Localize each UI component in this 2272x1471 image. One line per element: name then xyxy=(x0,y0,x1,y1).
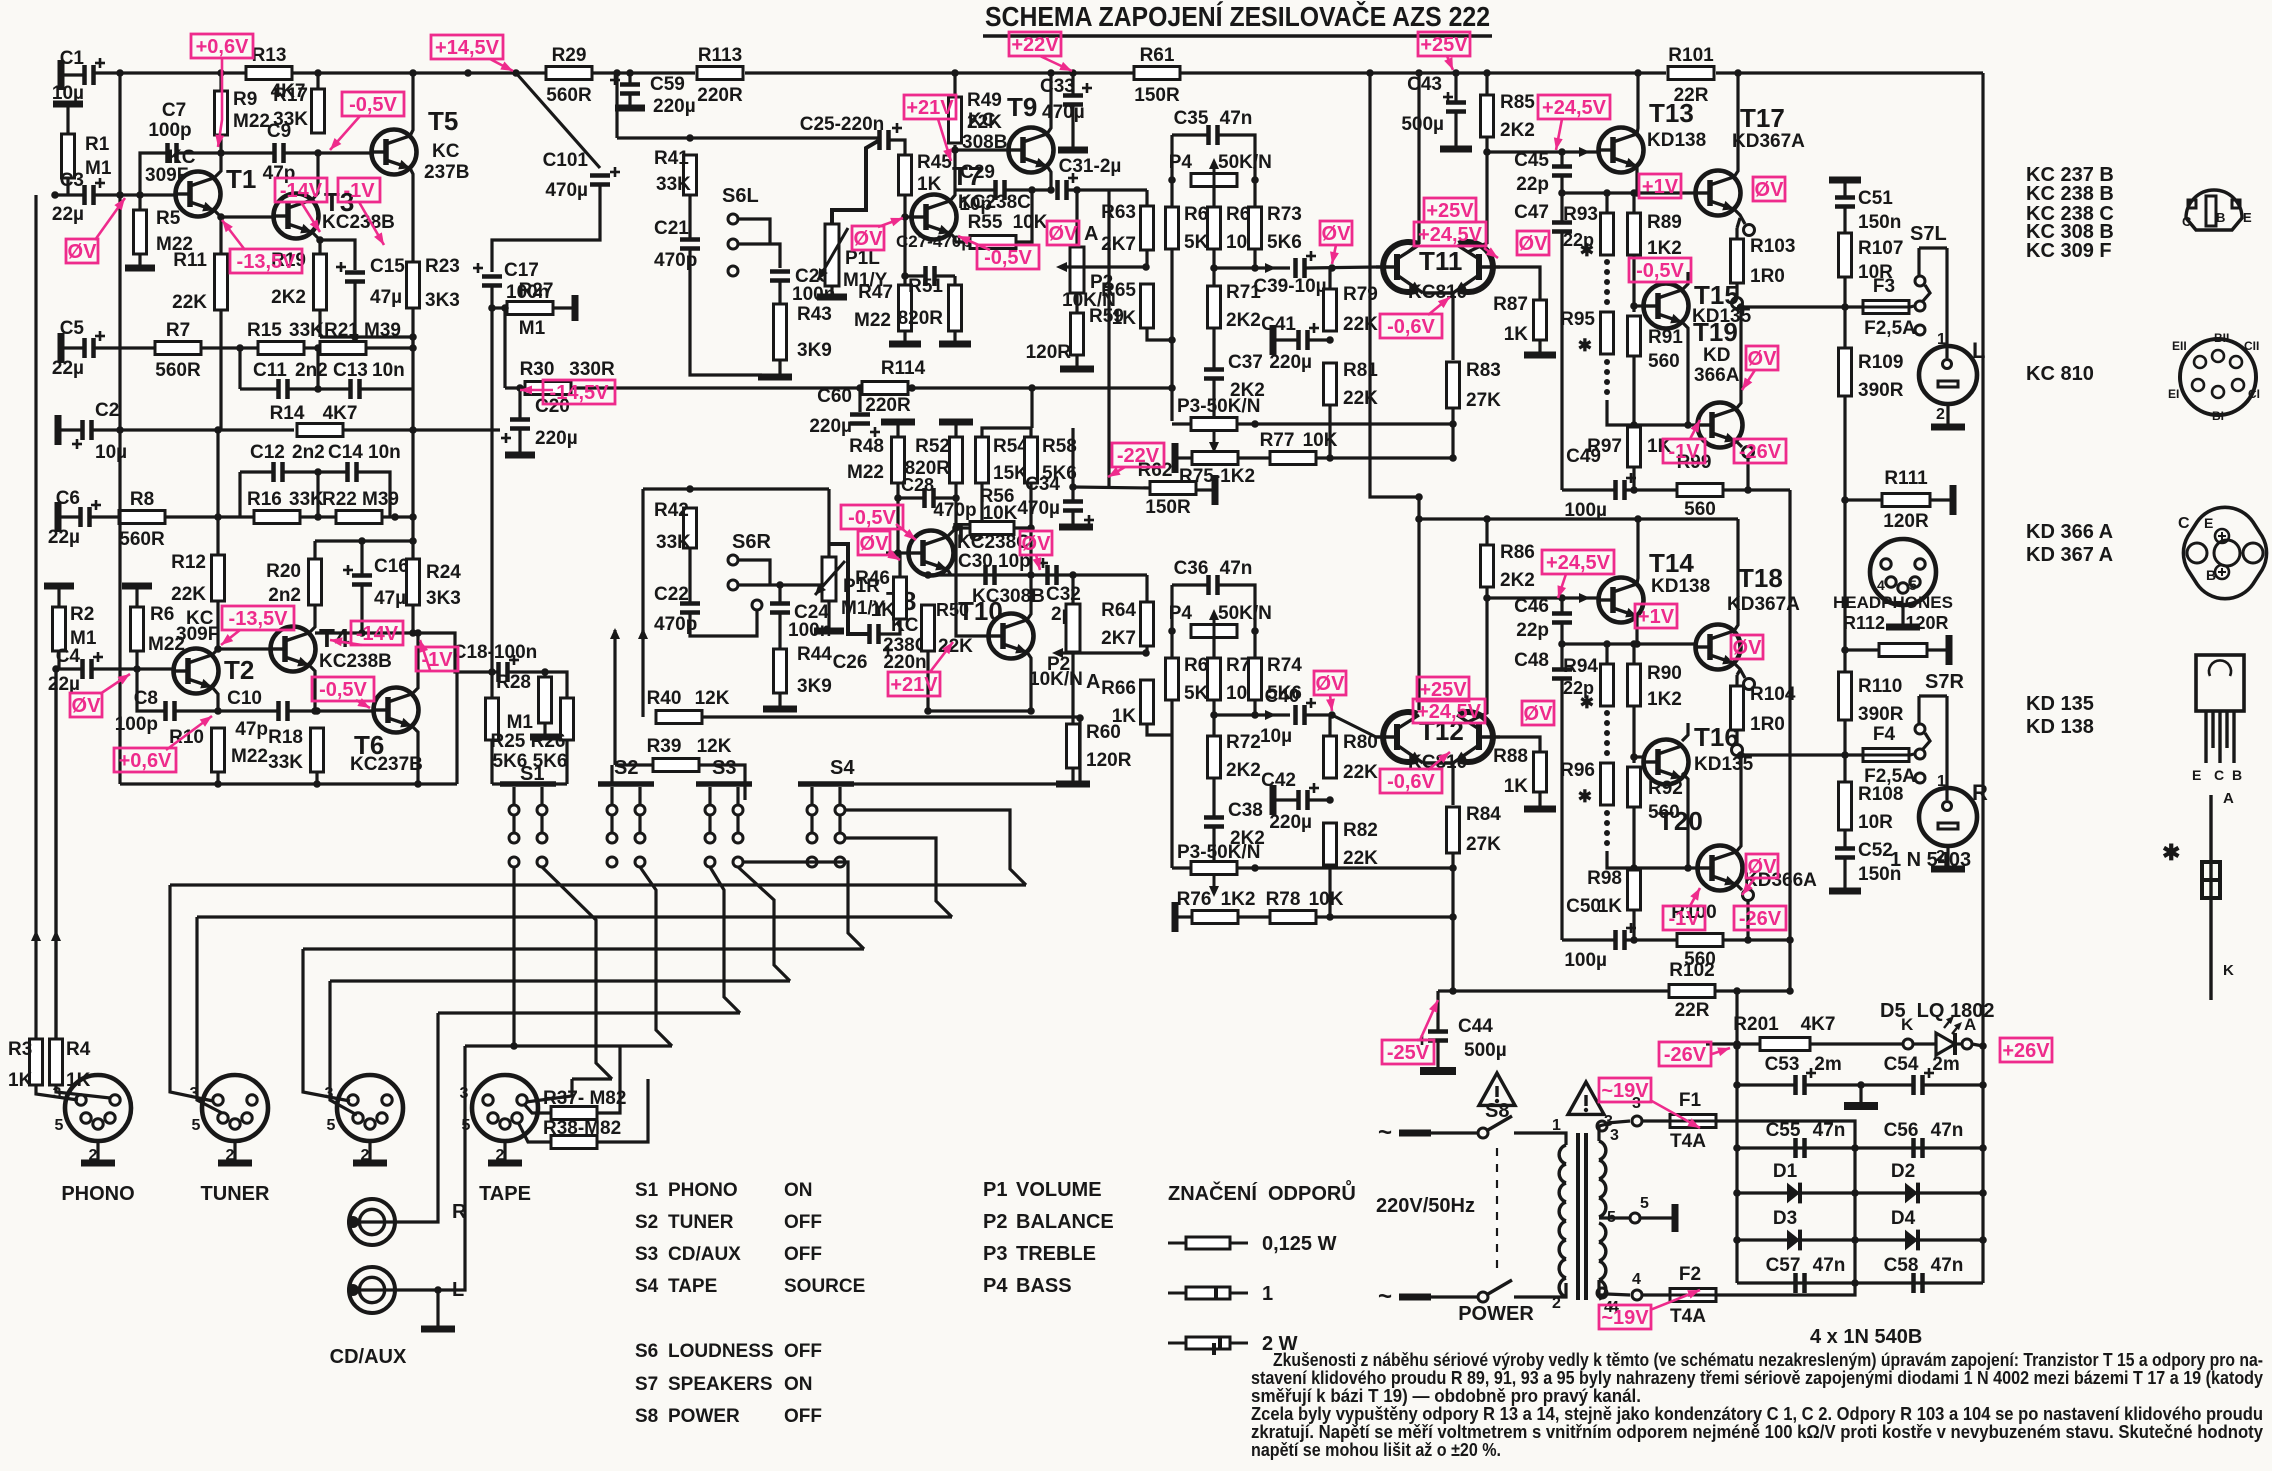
svg-text:KD 366 A: KD 366 A xyxy=(2026,521,2113,543)
wire T8 base lead xyxy=(886,551,907,554)
junction R18 btm xyxy=(313,780,321,788)
junction c53 l xyxy=(1733,1081,1741,1089)
pink arrow 0V T1 xyxy=(95,198,125,240)
svg-text:M22: M22 xyxy=(231,746,268,767)
svg-text:R112: R112 xyxy=(1843,613,1885,633)
label +14,5V supply xyxy=(431,35,503,59)
resistor R13 xyxy=(246,45,292,80)
capacitor C37 xyxy=(1204,370,1224,379)
label F2 xyxy=(1670,1264,1706,1327)
svg-text:C49: C49 xyxy=(1566,446,1601,467)
capacitor C17 xyxy=(482,277,502,286)
svg-text:C1: C1 xyxy=(60,48,85,69)
svg-text:Zkušenosti z náběhu sériové vý: Zkušenosti z náběhu sériové výroby vedly… xyxy=(1273,1350,2263,1370)
label R50 xyxy=(936,600,973,657)
label R16 xyxy=(247,489,324,510)
junction C3 left xyxy=(51,191,59,199)
svg-text:2: 2 xyxy=(1936,406,1945,423)
svg-text:5: 5 xyxy=(327,1117,336,1134)
label C4 xyxy=(48,646,81,695)
ground above R2 xyxy=(44,584,74,587)
wire lower P2 riser xyxy=(1071,575,1074,604)
wire R40 line xyxy=(654,715,657,718)
transistor T13 KD138 xyxy=(1599,98,1694,173)
wire R103 to line xyxy=(1735,307,1738,308)
wire x413 430-517 xyxy=(411,430,414,517)
wire C28 line xyxy=(898,496,923,499)
svg-text:47n: 47n xyxy=(1931,1255,1964,1276)
svg-text:22µ: 22µ xyxy=(48,527,80,548)
wire x1032 425 xyxy=(1030,388,1033,428)
label R88 xyxy=(1493,746,1528,797)
svg-text:LOUDNESS: LOUDNESS xyxy=(668,1341,774,1362)
title xyxy=(983,0,1492,36)
junction x413 C6line xyxy=(409,513,417,521)
wire C44 stem xyxy=(1436,991,1439,1030)
svg-text:C26: C26 xyxy=(833,652,868,673)
wire T16 collector xyxy=(1682,723,1688,741)
resistor R101 xyxy=(1668,45,1714,106)
resistor R71 xyxy=(1208,286,1221,328)
junction S4 line xyxy=(1076,714,1084,722)
svg-text:C101: C101 xyxy=(543,150,589,171)
svg-text:-26V: -26V xyxy=(1664,1044,1707,1066)
wire S1 pole drop xyxy=(512,867,515,1046)
label P1L xyxy=(843,248,888,291)
label C1 xyxy=(52,48,85,104)
label C2 xyxy=(95,400,127,463)
svg-text:R1: R1 xyxy=(85,134,110,155)
ground C20 xyxy=(505,452,535,459)
capacitor C42 xyxy=(1299,783,1320,810)
label 0V T1 base xyxy=(66,239,98,263)
svg-text:C: C xyxy=(2214,767,2224,783)
label -26V psu xyxy=(1659,1042,1711,1066)
svg-text:0,125 W: 0,125 W xyxy=(1262,1233,1337,1255)
wire R67 top xyxy=(1170,180,1173,207)
junction x218 C2 xyxy=(214,426,222,434)
svg-text:P4: P4 xyxy=(1169,603,1193,624)
wire R50 bottom xyxy=(926,651,929,711)
junction T9 base xyxy=(951,146,959,154)
switch S6R contact 1 xyxy=(728,555,738,565)
capacitor C14 xyxy=(348,462,357,482)
wire T9 emitter line xyxy=(955,188,994,191)
wire S4 stub r xyxy=(846,810,1026,885)
wire S7R to speaker xyxy=(1945,696,1948,800)
svg-text:10K: 10K xyxy=(1013,212,1048,233)
label R74 xyxy=(1267,655,1302,704)
wire R75 left xyxy=(1178,456,1193,459)
arrow P2 wiper xyxy=(1056,262,1067,272)
wire R73 bottom xyxy=(1253,249,1256,268)
svg-text:KD138: KD138 xyxy=(1647,130,1706,151)
resistor R62 xyxy=(1150,482,1196,495)
label +24,5V T13 base xyxy=(1538,95,1610,119)
transistor T16 KD135 xyxy=(1644,722,1739,785)
wire R60 gnd xyxy=(1071,768,1074,781)
label -14V T4 xyxy=(351,621,403,645)
junction R112 R110 xyxy=(1841,646,1849,654)
wire S2 riser b xyxy=(640,867,672,1046)
wire C16 bottom xyxy=(360,586,363,633)
wire T13 base line xyxy=(1487,150,1598,153)
svg-text:2n2: 2n2 xyxy=(292,442,325,463)
wire T19 em down xyxy=(1746,458,1749,490)
junction C27 left xyxy=(901,272,909,280)
label T16 type xyxy=(1694,754,1754,775)
capacitor C2 xyxy=(83,420,92,440)
svg-text:100µ: 100µ xyxy=(1564,500,1607,521)
junction bridge tl xyxy=(1733,1042,1741,1050)
svg-text:R42: R42 xyxy=(654,500,689,521)
wire C9 right xyxy=(284,151,371,154)
wire R48 bottom xyxy=(896,483,899,553)
wire cdaux drop 5 xyxy=(330,981,357,1115)
switch S8 dashes xyxy=(1495,1145,1499,1270)
resistor R59 xyxy=(1071,313,1084,355)
svg-text:KC 238 B: KC 238 B xyxy=(2026,183,2114,205)
wire S2 top a xyxy=(610,765,613,784)
junction d1 l xyxy=(1733,1189,1741,1197)
pink arrow -25V xyxy=(1420,1000,1438,1040)
svg-text:100µ: 100µ xyxy=(1564,950,1607,971)
label D1 xyxy=(1773,1161,1798,1182)
label RCA R xyxy=(452,1201,467,1223)
svg-text:C37: C37 xyxy=(1228,352,1263,373)
svg-text:K: K xyxy=(2223,962,2234,979)
pink arrow 0V T10 xyxy=(1033,555,1042,570)
wire T1 emitter xyxy=(214,210,273,217)
junction R108 line xyxy=(1841,751,1849,759)
ground R28 xyxy=(530,723,560,737)
label TAPE xyxy=(479,1183,531,1205)
icon TO-126 package xyxy=(2192,655,2244,783)
label C41 xyxy=(1261,314,1312,373)
label R52 xyxy=(905,436,951,479)
diode D2 xyxy=(1905,1183,1918,1204)
svg-text:22µ: 22µ xyxy=(52,204,84,225)
label -0,5V T7 emitter xyxy=(977,245,1039,269)
svg-text:R55: R55 xyxy=(968,212,1003,233)
wire R93 top xyxy=(1605,193,1608,213)
wire T6 collector xyxy=(412,633,418,694)
resistor R15 xyxy=(258,342,304,355)
label R76 xyxy=(1177,889,1256,910)
wire to T12 base xyxy=(1332,715,1376,737)
svg-text:2m: 2m xyxy=(1932,1054,1959,1075)
label R55 xyxy=(968,212,1048,233)
capacitor C23 xyxy=(770,272,790,281)
chassis terminal C41 xyxy=(1270,325,1277,355)
transistor T4 KC238B xyxy=(271,623,350,672)
wire C40 right xyxy=(1306,713,1332,716)
junction d1 m xyxy=(1851,1189,1859,1197)
wire P1R bottom xyxy=(827,601,830,628)
svg-text:TAPE: TAPE xyxy=(668,1276,717,1297)
svg-text:OFF: OFF xyxy=(784,1341,822,1362)
wire S2 riser a xyxy=(710,867,740,1013)
capacitor C54 xyxy=(1914,1068,1935,1095)
label R54 xyxy=(993,436,1028,484)
pink arrow -0,5V T8 xyxy=(896,524,916,540)
wire R103 t17 xyxy=(1737,218,1740,228)
wire R23 bottom xyxy=(411,308,414,389)
transistor T17 KD367A xyxy=(1696,103,1785,216)
svg-text:C18-100n: C18-100n xyxy=(453,642,538,663)
label R66 xyxy=(1101,678,1136,727)
resistor R107 xyxy=(1839,233,1852,277)
resistor R69 xyxy=(1208,207,1221,249)
label +1V T14 xyxy=(1635,604,1677,628)
wire T20 collector xyxy=(1736,758,1741,852)
label R9 xyxy=(233,89,270,132)
svg-text:R80: R80 xyxy=(1343,732,1378,753)
capacitor C40 xyxy=(1296,698,1317,725)
junction T14 coll feed xyxy=(1634,515,1642,523)
wire R25 bottom xyxy=(490,740,493,784)
junction R111 left xyxy=(1841,496,1849,504)
junction T19 coll line xyxy=(1737,303,1745,311)
label R60 xyxy=(1086,722,1132,771)
capacitor C46 xyxy=(1552,614,1572,623)
svg-text:C29: C29 xyxy=(960,162,995,183)
wire C43 stem xyxy=(1454,73,1457,103)
junction bus x413 xyxy=(409,69,417,77)
switch S6L contact 1 xyxy=(728,214,738,224)
svg-text:22K: 22K xyxy=(172,292,207,313)
label +0,6V node T1 base xyxy=(191,34,253,58)
junction R24 btm xyxy=(409,629,417,637)
wire R12 bottom xyxy=(216,601,219,649)
wire tap to gnd xyxy=(1640,1216,1672,1219)
svg-text:220µ: 220µ xyxy=(1269,812,1312,833)
resistor R73 xyxy=(1249,207,1262,249)
wire T7 base lead xyxy=(905,215,911,218)
wire R100 right xyxy=(1723,938,1790,941)
svg-text:-0,6V: -0,6V xyxy=(1387,771,1435,793)
resistor R94 xyxy=(1601,664,1614,706)
ground rca L xyxy=(421,1326,455,1333)
svg-text:R3: R3 xyxy=(8,1039,32,1060)
svg-text:C11: C11 xyxy=(253,360,287,381)
wire R86 top xyxy=(1485,519,1488,545)
junction C33 bus xyxy=(1069,69,1077,77)
junction R42 top xyxy=(686,485,694,493)
label R13 value xyxy=(271,81,306,102)
pink arrow +24,5V T11 xyxy=(1484,247,1498,258)
label 220V xyxy=(1376,1195,1475,1217)
label T6 type xyxy=(350,754,423,775)
wire C46-C48 xyxy=(1560,624,1563,668)
resistor R37 xyxy=(551,1107,597,1120)
label PHONO xyxy=(61,1183,134,1205)
junction R50 top xyxy=(924,571,932,579)
svg-text:ØV: ØV xyxy=(72,695,102,717)
svg-text:ØV: ØV xyxy=(1748,348,1778,370)
wire top common lower xyxy=(315,539,413,542)
svg-text:R86: R86 xyxy=(1500,542,1535,563)
svg-text:✱: ✱ xyxy=(1580,693,1594,712)
capacitor C36 xyxy=(1209,575,1218,595)
svg-text:22p: 22p xyxy=(1516,620,1549,641)
svg-text:10µ: 10µ xyxy=(95,442,127,463)
wire T17 emitter xyxy=(1734,209,1745,224)
wire P1L top zigzag xyxy=(832,141,878,224)
svg-text:+0,6V: +0,6V xyxy=(196,36,249,58)
junction T16 base xyxy=(1630,753,1638,761)
label C6 xyxy=(48,488,80,548)
wire R11 top xyxy=(219,217,222,254)
label S6R xyxy=(732,531,771,553)
wire -14V line xyxy=(315,631,418,634)
label K xyxy=(1901,1015,1914,1034)
junction c55 l xyxy=(1733,1144,1741,1152)
junction rca L gnd xyxy=(434,1286,442,1294)
wire C38 bottom xyxy=(1212,828,1215,861)
ground P1R xyxy=(814,628,844,635)
resistor R38 xyxy=(551,1136,597,1149)
svg-text:100p: 100p xyxy=(148,120,191,141)
svg-text:3: 3 xyxy=(53,1085,62,1102)
svg-text:C2: C2 xyxy=(95,400,119,421)
wire C57 row xyxy=(1737,1281,1983,1284)
svg-text:C12: C12 xyxy=(250,442,285,463)
capacitor C53 xyxy=(1796,1068,1817,1095)
label -22V xyxy=(1112,443,1164,467)
wire C18 line xyxy=(418,633,497,672)
junction c55 r xyxy=(1979,1144,1987,1152)
wire R63 top xyxy=(1145,190,1148,206)
terminal T19 emitter xyxy=(1743,447,1754,458)
wire +26V rail right xyxy=(1981,73,1984,1046)
resistor R10 xyxy=(212,728,225,772)
wire R59 gnd xyxy=(1075,355,1078,366)
label P2 upper xyxy=(1062,272,1116,311)
junction R86 top j xyxy=(1483,515,1491,523)
wire R47 top xyxy=(903,217,906,285)
wire T14 base line xyxy=(1487,596,1598,599)
wire T19 emitter xyxy=(1736,441,1742,447)
svg-text:47n: 47n xyxy=(1813,1120,1846,1141)
junction T11 base node xyxy=(1328,264,1336,272)
capacitor C31 xyxy=(1058,173,1079,200)
switch S1 xyxy=(500,763,556,867)
wire mid rail xyxy=(505,386,525,389)
label C46 xyxy=(1514,596,1549,641)
label T7 type xyxy=(958,192,1031,213)
wire rail to R201 line xyxy=(1735,991,1738,1044)
wire C101 down xyxy=(492,186,600,272)
wire C33 stem xyxy=(1071,73,1074,96)
resistor P4 upper xyxy=(1191,174,1237,187)
wire R104 top xyxy=(1735,675,1738,686)
label T13 type xyxy=(1647,130,1706,151)
junction T10 emitter xyxy=(1027,571,1035,579)
svg-text:R114: R114 xyxy=(881,358,926,379)
capacitor C11 xyxy=(279,379,288,399)
svg-text:220µ: 220µ xyxy=(535,428,578,449)
svg-text:TAPE: TAPE xyxy=(479,1183,531,1205)
wire R2 top xyxy=(57,589,60,607)
label -0,5V T8 xyxy=(841,505,903,529)
wire P2 wiper lower xyxy=(1062,651,1146,654)
label S6L xyxy=(722,185,759,207)
wire top bus mid xyxy=(593,71,695,74)
svg-text:390R: 390R xyxy=(1858,380,1904,401)
svg-text:+1V: +1V xyxy=(1638,606,1675,628)
svg-text:R84: R84 xyxy=(1466,804,1501,825)
svg-text:ØV: ØV xyxy=(860,533,890,555)
label C17 xyxy=(473,260,549,303)
svg-text:T2: T2 xyxy=(224,655,254,685)
label C49 xyxy=(1564,446,1607,521)
svg-text:2K2: 2K2 xyxy=(1226,760,1261,781)
label C24 xyxy=(788,602,831,641)
label C32 xyxy=(1038,558,1081,625)
svg-text:ON: ON xyxy=(784,1374,813,1395)
wire R65 bottom xyxy=(1147,328,1172,340)
wire R39 right xyxy=(699,765,745,800)
junction x120 base xyxy=(116,191,124,199)
svg-text:S1: S1 xyxy=(635,1180,659,1201)
wire x318 472-517 xyxy=(316,472,319,517)
svg-text:C6: C6 xyxy=(56,488,80,509)
wire R69 top xyxy=(1212,187,1215,207)
svg-text:1K: 1K xyxy=(1112,706,1137,727)
svg-text:M1: M1 xyxy=(507,712,534,733)
connector HEADPHONES xyxy=(1870,539,1936,627)
wire D1 row xyxy=(1737,1191,1983,1194)
label A ledd xyxy=(1964,1015,1976,1034)
svg-text:5: 5 xyxy=(192,1117,201,1134)
svg-text:R46: R46 xyxy=(855,568,890,589)
svg-text:5: 5 xyxy=(55,1117,64,1134)
wire R41 bottom xyxy=(688,195,691,238)
svg-text:-0,5V: -0,5V xyxy=(1636,260,1684,282)
svg-text:33K: 33K xyxy=(656,532,691,553)
svg-text:PHONO: PHONO xyxy=(61,1183,134,1205)
wire R59 top xyxy=(1075,292,1078,313)
wire F4 to S7R xyxy=(1910,754,1914,755)
label T10 type xyxy=(972,586,1045,607)
label R15 xyxy=(247,320,324,341)
svg-text:R20: R20 xyxy=(266,561,301,582)
pink arrow 0V T20 xyxy=(1742,878,1755,895)
label -26V left ch xyxy=(1734,439,1786,463)
label R112 xyxy=(1843,613,1949,633)
wire R71 bottom xyxy=(1212,328,1215,368)
svg-text:napětí se mohou lišit až o ±20: napětí se mohou lišit až o ±20 %. xyxy=(1251,1440,1501,1460)
wire T6 emitter xyxy=(412,726,418,784)
svg-text:A: A xyxy=(2223,790,2234,807)
svg-text:220R: 220R xyxy=(865,395,911,416)
wire R90 top xyxy=(1632,644,1635,664)
svg-text:S2: S2 xyxy=(614,757,638,779)
wire R102 line xyxy=(1438,989,1668,992)
junction bus x318 xyxy=(314,69,322,77)
wire C2 left xyxy=(58,428,81,431)
pink arrow 0V P1L xyxy=(878,218,903,227)
label C16 xyxy=(374,556,409,609)
svg-text:C3: C3 xyxy=(60,170,84,191)
label T3 type xyxy=(322,212,395,233)
wire C17 to R27 xyxy=(492,287,507,308)
junction x240 r7line xyxy=(236,344,244,352)
wire x318 389-348 xyxy=(316,348,319,389)
ground C43 xyxy=(1440,146,1472,153)
svg-text:~: ~ xyxy=(1378,1119,1392,1146)
